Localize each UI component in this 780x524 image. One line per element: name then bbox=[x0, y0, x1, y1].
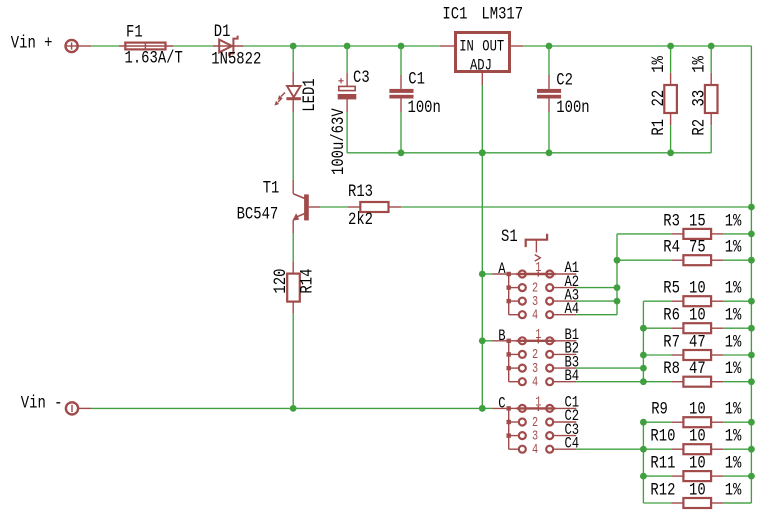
wire R13 to right rail bbox=[401, 206, 751, 208]
pin label C2 bbox=[565, 408, 580, 426]
wire C4 to feeder bbox=[576, 448, 643, 450]
value 10 (R10) bbox=[689, 426, 706, 446]
junction at C3 branch (347,46) bbox=[344, 43, 351, 50]
switch S1 contact C2 (position 2) bbox=[519, 414, 577, 430]
svg-text:1.63A/T: 1.63A/T bbox=[125, 48, 183, 68]
label LED1 (vertical) bbox=[300, 78, 320, 111]
svg-text:1: 1 bbox=[535, 394, 541, 410]
svg-text:1%: 1% bbox=[725, 480, 742, 500]
wire Vin- rail bbox=[91, 407, 482, 409]
wire R2 bottom bbox=[710, 125, 712, 153]
svg-text:47: 47 bbox=[689, 332, 706, 352]
junction ADJ net at bank C common bbox=[479, 405, 486, 412]
junction feeder B at B3 bbox=[640, 365, 647, 372]
resistor R11 (10 1%) bbox=[671, 471, 723, 481]
value BC547 bbox=[237, 204, 279, 224]
svg-text:1%: 1% bbox=[725, 211, 742, 231]
wire B3 to feeder bbox=[576, 367, 643, 369]
junction at C1 branch (401,46) bbox=[398, 43, 405, 50]
junction right rail at R8 bbox=[748, 378, 755, 385]
tolerance 1% (R2, vertical) bbox=[689, 56, 709, 73]
resistor R4 (75 1%) bbox=[671, 255, 723, 265]
wire OUT to output rail bbox=[523, 45, 751, 47]
junction right rail at R3 bbox=[748, 231, 755, 238]
label IC1 bbox=[442, 4, 467, 24]
junction right rail at R6 bbox=[748, 325, 755, 332]
svg-text:R5: R5 bbox=[663, 278, 680, 298]
wire R14 to Vin- rail bbox=[292, 314, 294, 409]
terminal pad Vin- (node Vin-) bbox=[66, 402, 91, 414]
op-amp/regulator IC1 LM317 box bbox=[456, 33, 510, 76]
svg-text:1%: 1% bbox=[725, 332, 742, 352]
tolerance 1% (R10) bbox=[725, 426, 742, 446]
label D1 bbox=[214, 21, 231, 41]
wire mid rail (ADJ net) bbox=[347, 152, 711, 154]
switch S1 contact A3 (position 3) bbox=[519, 293, 577, 309]
value 10 (R5) bbox=[689, 278, 706, 298]
wire feeder to R7 bbox=[643, 354, 671, 356]
pin label C1 bbox=[565, 394, 580, 412]
wire ADJ vertical down to Vin- rail bbox=[481, 85, 483, 408]
switch S1 bank B common bus bbox=[493, 339, 519, 382]
value 10 (R6) bbox=[689, 305, 706, 325]
LED LED1 bbox=[274, 72, 301, 112]
resistor R14 (120) bbox=[287, 261, 300, 313]
junction ADJ net at mid rail bbox=[479, 149, 486, 156]
svg-text:33: 33 bbox=[689, 90, 709, 107]
tolerance 1% (R3) bbox=[725, 211, 742, 231]
svg-text:1%: 1% bbox=[725, 399, 742, 419]
wire feeder to R11 bbox=[643, 475, 671, 477]
svg-text:10: 10 bbox=[689, 480, 706, 500]
label R3 bbox=[663, 211, 680, 231]
resistor R13 (2k2) bbox=[348, 202, 401, 212]
value 1.63A/T bbox=[125, 48, 183, 68]
capacitor C2 bbox=[537, 75, 561, 112]
wire R8 to right rail bbox=[723, 381, 751, 383]
wire A4 to feeder bbox=[576, 314, 617, 316]
label Vin + bbox=[11, 33, 53, 53]
svg-text:A: A bbox=[498, 261, 506, 279]
junction at LED branch (293,46) bbox=[290, 43, 297, 50]
svg-text:C3: C3 bbox=[353, 68, 370, 88]
pin label B2 bbox=[565, 340, 580, 358]
svg-text:75: 75 bbox=[689, 237, 706, 257]
svg-text:1%: 1% bbox=[725, 278, 742, 298]
wire R3 to right rail bbox=[723, 233, 751, 235]
wire top to R2 bbox=[710, 46, 712, 73]
wire R4 to right rail bbox=[723, 259, 751, 261]
resistor R2 (33 1%) bbox=[705, 73, 718, 125]
wire feeder R9-R12 to bank C bbox=[642, 422, 644, 503]
pin IC1 IN bbox=[440, 45, 454, 47]
switch S1 wiper symbol bbox=[526, 234, 547, 261]
resistor R1 (22 1%) bbox=[664, 73, 677, 125]
svg-text:R8: R8 bbox=[663, 359, 680, 379]
value 10 (R12) bbox=[689, 480, 706, 500]
value 22 (R1, vertical) bbox=[649, 90, 669, 107]
tolerance 1% (R5) bbox=[725, 278, 742, 298]
svg-text:1%: 1% bbox=[725, 237, 742, 257]
pin IC1 ADJ bbox=[481, 73, 483, 85]
svg-text:4: 4 bbox=[532, 374, 538, 390]
svg-text:C4: C4 bbox=[565, 435, 580, 453]
value 100n (C1) bbox=[408, 98, 441, 118]
wire common stub bank A bbox=[482, 273, 492, 275]
svg-text:10: 10 bbox=[689, 305, 706, 325]
svg-text:R2: R2 bbox=[689, 119, 709, 136]
label R6 bbox=[663, 305, 680, 325]
junction right rail at R11 bbox=[748, 473, 755, 480]
wire R7 to right rail bbox=[723, 354, 751, 356]
svg-text:47: 47 bbox=[689, 359, 706, 379]
wire A2 to feeder bbox=[576, 287, 617, 289]
junction mid rail at C1 bbox=[398, 149, 405, 156]
junction Vin- rail at R14 bbox=[290, 405, 297, 412]
wire R6 to right rail bbox=[723, 327, 751, 329]
wire rail bottom corner to R12 bbox=[723, 502, 751, 504]
wire feeder to R5 bbox=[643, 300, 671, 302]
svg-text:15: 15 bbox=[689, 211, 706, 231]
wire feeder R3/R4 to bank A bbox=[616, 234, 618, 315]
switch S1 contact A2 (position 2) bbox=[519, 280, 577, 296]
label R9 bbox=[651, 399, 668, 419]
wire junction to C1 bbox=[400, 46, 402, 75]
terminal pad Vin+ (node Vin+) bbox=[66, 40, 92, 52]
svg-text:4: 4 bbox=[532, 307, 538, 323]
wire T1 emitter to R14 bbox=[292, 233, 294, 261]
wire top to R1 bbox=[670, 46, 672, 73]
resistor R7 (47 1%) bbox=[671, 350, 723, 360]
svg-text:R3: R3 bbox=[663, 211, 680, 231]
junction ADJ net at bank B common bbox=[479, 337, 486, 344]
svg-text:R10: R10 bbox=[650, 426, 675, 446]
capacitor C3 (electrolytic) bbox=[338, 73, 357, 112]
label node A bbox=[498, 261, 506, 279]
svg-text:R14: R14 bbox=[297, 269, 317, 294]
junction at R1 branch (670.6,46) bbox=[667, 43, 674, 50]
wire feeder to R9 bbox=[643, 421, 671, 423]
svg-text:1%: 1% bbox=[725, 453, 742, 473]
svg-text:4: 4 bbox=[532, 441, 538, 457]
wire F1 to D1 bbox=[173, 45, 213, 47]
svg-text:IN: IN bbox=[459, 38, 474, 56]
svg-text:OUT: OUT bbox=[482, 38, 504, 56]
wire feeder to R8 bbox=[643, 381, 671, 383]
junction feeder A at R4 bbox=[614, 257, 621, 264]
junction right rail at R4 bbox=[748, 257, 755, 264]
resistor R12 (10 1%) bbox=[671, 498, 723, 508]
value 120 (R14, vertical) bbox=[270, 269, 290, 294]
wire junction to C2 bbox=[548, 46, 550, 75]
label R4 bbox=[663, 237, 680, 257]
wire C2 to mid rail bbox=[548, 112, 550, 153]
wire output right rail vertical bbox=[750, 46, 752, 503]
junction right rail at R9 bbox=[748, 419, 755, 426]
value 1N5822 bbox=[211, 49, 261, 69]
svg-text:1%: 1% bbox=[689, 56, 709, 73]
wire Vin+ terminal to F1 bbox=[91, 45, 119, 47]
junction Vin- rail at bank C / ADJ net bbox=[479, 405, 486, 412]
svg-text:C: C bbox=[498, 395, 505, 413]
label R7 bbox=[663, 332, 680, 352]
svg-text:1%: 1% bbox=[725, 305, 742, 325]
junction right rail at R5 bbox=[748, 298, 755, 305]
value 10 (R9) bbox=[689, 399, 706, 419]
value 10 (R11) bbox=[689, 453, 706, 473]
svg-text:10: 10 bbox=[689, 453, 706, 473]
switch S1 contact B1 (position 1) bbox=[517, 326, 577, 344]
switch S1 contact B4 (position 4) bbox=[519, 374, 577, 390]
pin label A4 bbox=[565, 301, 580, 319]
tolerance 1% (R1, vertical) bbox=[649, 56, 669, 73]
label R1 (vertical) bbox=[649, 119, 669, 136]
wire junction to C3 bbox=[346, 46, 348, 73]
svg-text:10: 10 bbox=[689, 426, 706, 446]
switch S1 bank A common bus bbox=[493, 272, 519, 315]
svg-text:R13: R13 bbox=[348, 182, 373, 202]
tolerance 1% (R9) bbox=[725, 399, 742, 419]
wire feeder to R12 bbox=[643, 502, 671, 504]
svg-text:T1: T1 bbox=[263, 178, 280, 198]
wire T1 base to R13 bbox=[320, 206, 348, 208]
svg-text:R1: R1 bbox=[649, 119, 669, 136]
value LM317 bbox=[481, 4, 523, 24]
switch S1 contact C3 (position 3) bbox=[519, 428, 577, 444]
tolerance 1% (R6) bbox=[725, 305, 742, 325]
svg-text:1N5822: 1N5822 bbox=[211, 49, 261, 69]
junction mid rail at ADJ bbox=[479, 149, 486, 156]
label Vin - bbox=[21, 393, 63, 413]
svg-text:C2: C2 bbox=[556, 70, 573, 90]
wire R12 to right rail bbox=[723, 502, 751, 504]
resistor R8 (47 1%) bbox=[671, 377, 723, 387]
wire C1 to mid rail bbox=[400, 112, 402, 153]
junction feeder C at R11 bbox=[640, 473, 647, 480]
junction feeder B at R7 bbox=[640, 352, 647, 359]
junction feeder B at R6 bbox=[640, 325, 647, 332]
wire R11 to right rail bbox=[723, 475, 751, 477]
svg-text:1: 1 bbox=[535, 326, 541, 342]
svg-text:R9: R9 bbox=[651, 399, 668, 419]
svg-text:R11: R11 bbox=[650, 453, 675, 473]
svg-text:LM317: LM317 bbox=[481, 4, 523, 24]
tolerance 1% (R4) bbox=[725, 237, 742, 257]
switch S1 bank C common bus bbox=[493, 406, 519, 449]
junction at C2 branch (549,46) bbox=[546, 43, 553, 50]
label R2 (vertical) bbox=[689, 119, 709, 136]
label R11 bbox=[650, 453, 675, 473]
junction mid rail at C2 bbox=[546, 149, 553, 156]
label R13 bbox=[348, 182, 373, 202]
wire junction to LED1 anode bbox=[292, 46, 294, 72]
svg-text:S1: S1 bbox=[501, 227, 518, 247]
switch S1 contact A1 (position 1) bbox=[517, 259, 577, 277]
junction feeder C at R9 bbox=[640, 419, 647, 426]
label S1 bbox=[501, 227, 518, 247]
resistor R6 (10 1%) bbox=[671, 323, 723, 333]
resistor R5 (10 1%) bbox=[671, 296, 723, 306]
switch S1 contact B3 (position 3) bbox=[519, 360, 577, 376]
switch S1 contact C4 (position 4) bbox=[519, 441, 577, 457]
value 100n (C2) bbox=[556, 98, 589, 118]
switch S1 contact C1 (position 1) bbox=[517, 394, 577, 412]
wire feeder to R6 bbox=[643, 327, 671, 329]
pin label B3 bbox=[565, 354, 580, 372]
label R5 bbox=[663, 278, 680, 298]
wire C3 to mid rail corner bbox=[346, 112, 348, 153]
wire common stub bank B bbox=[482, 340, 492, 342]
wire feeder R5-R8 to bank B bbox=[642, 301, 644, 382]
svg-text:R6: R6 bbox=[663, 305, 680, 325]
svg-text:BC547: BC547 bbox=[237, 204, 279, 224]
svg-text:10: 10 bbox=[689, 278, 706, 298]
junction feeder C at C4/R10 bbox=[640, 446, 647, 453]
svg-text:1%: 1% bbox=[725, 359, 742, 379]
wire feeder to R4 bbox=[617, 259, 671, 261]
svg-text:1: 1 bbox=[535, 259, 541, 275]
label node C bbox=[498, 395, 505, 413]
junction R13 wire at right rail bbox=[748, 204, 755, 211]
pin label A1 bbox=[565, 260, 580, 278]
capacitor C1 bbox=[389, 75, 413, 112]
tolerance 1% (R11) bbox=[725, 453, 742, 473]
pin label C4 bbox=[565, 435, 580, 453]
fuse F1 bbox=[119, 42, 173, 50]
value 47 (R8) bbox=[689, 359, 706, 379]
svg-text:B4: B4 bbox=[565, 368, 580, 386]
tolerance 1% (R8) bbox=[725, 359, 742, 379]
svg-text:IC1: IC1 bbox=[442, 4, 467, 24]
value 75 (R4) bbox=[689, 237, 706, 257]
svg-text:100n: 100n bbox=[556, 98, 589, 118]
value 2k2 bbox=[348, 210, 373, 230]
label C1 bbox=[408, 69, 425, 89]
junction at R2 branch (711.2,46) bbox=[708, 43, 715, 50]
value 33 (R2, vertical) bbox=[689, 90, 709, 107]
svg-text:A4: A4 bbox=[565, 301, 580, 319]
svg-text:2k2: 2k2 bbox=[348, 210, 373, 230]
tolerance 1% (R7) bbox=[725, 332, 742, 352]
svg-text:1%: 1% bbox=[649, 56, 669, 73]
resistor R10 (10 1%) bbox=[671, 444, 723, 454]
junction feeder B at B4/R8 bbox=[640, 378, 647, 385]
tolerance 1% (R12) bbox=[725, 480, 742, 500]
junction right rail at R10 bbox=[748, 446, 755, 453]
wire feeder to R10 bbox=[643, 448, 671, 450]
label C3 bbox=[353, 68, 370, 88]
resistor R9 (10 1%) bbox=[671, 417, 723, 427]
pin label B4 bbox=[565, 368, 580, 386]
svg-text:100n: 100n bbox=[408, 98, 441, 118]
wire common stub bank C bbox=[482, 407, 492, 409]
junction right rail at R7 bbox=[748, 352, 755, 359]
svg-text:100u/63V: 100u/63V bbox=[329, 108, 349, 175]
label C2 bbox=[556, 70, 573, 90]
svg-text:D1: D1 bbox=[214, 21, 231, 41]
svg-text:F1: F1 bbox=[126, 22, 143, 42]
wire R10 to right rail bbox=[723, 448, 751, 450]
wire feeder to R3 bbox=[617, 233, 671, 235]
svg-text:B: B bbox=[498, 327, 505, 345]
value 100u/63V (vertical) bbox=[329, 108, 349, 175]
label R14 (vertical) bbox=[297, 269, 317, 294]
pin label A3 bbox=[565, 287, 580, 305]
svg-text:22: 22 bbox=[649, 90, 669, 107]
label R8 bbox=[663, 359, 680, 379]
svg-text:R7: R7 bbox=[663, 332, 680, 352]
value 47 (R7) bbox=[689, 332, 706, 352]
label R12 bbox=[650, 480, 675, 500]
svg-text:Vin +: Vin + bbox=[11, 33, 53, 53]
junction feeder A at A3 bbox=[614, 298, 621, 305]
switch S1 contact B2 (position 2) bbox=[519, 347, 577, 363]
switch S1 contact A4 (position 4) bbox=[519, 307, 577, 323]
wire A3 to feeder bbox=[576, 300, 617, 302]
svg-text:LED1: LED1 bbox=[300, 78, 320, 111]
svg-text:10: 10 bbox=[689, 399, 706, 419]
diode D1 (schottky) bbox=[213, 36, 244, 57]
svg-text:C1: C1 bbox=[408, 69, 425, 89]
resistor R3 (15 1%) bbox=[671, 229, 723, 239]
junction feeder A at A2 bbox=[614, 284, 621, 291]
wire R5 to right rail bbox=[723, 300, 751, 302]
label node B bbox=[498, 327, 505, 345]
wire B4 to feeder bbox=[576, 381, 643, 383]
pin label B1 bbox=[565, 327, 580, 345]
junction ADJ net at bank A common bbox=[479, 271, 486, 278]
wire LED1 cathode to T1 collector bbox=[292, 112, 294, 180]
junction mid rail at R1 bbox=[667, 149, 674, 156]
svg-text:1%: 1% bbox=[725, 426, 742, 446]
transistor T1 BC547 bbox=[292, 180, 320, 233]
pin label C3 bbox=[565, 421, 580, 439]
label R10 bbox=[650, 426, 675, 446]
pin IC1 OUT bbox=[511, 45, 523, 47]
label T1 bbox=[263, 178, 280, 198]
wire R1 bottom bbox=[670, 125, 672, 153]
pin label A2 bbox=[565, 273, 580, 291]
svg-text:R12: R12 bbox=[650, 480, 675, 500]
svg-text:ADJ: ADJ bbox=[470, 57, 492, 75]
svg-text:120: 120 bbox=[270, 269, 290, 294]
wire R9 to right rail bbox=[723, 421, 751, 423]
svg-text:R4: R4 bbox=[663, 237, 680, 257]
wire D1 to node V+ rail bbox=[243, 45, 440, 47]
label F1 bbox=[126, 22, 143, 42]
value 15 (R3) bbox=[689, 211, 706, 231]
svg-text:Vin -: Vin - bbox=[21, 393, 63, 413]
